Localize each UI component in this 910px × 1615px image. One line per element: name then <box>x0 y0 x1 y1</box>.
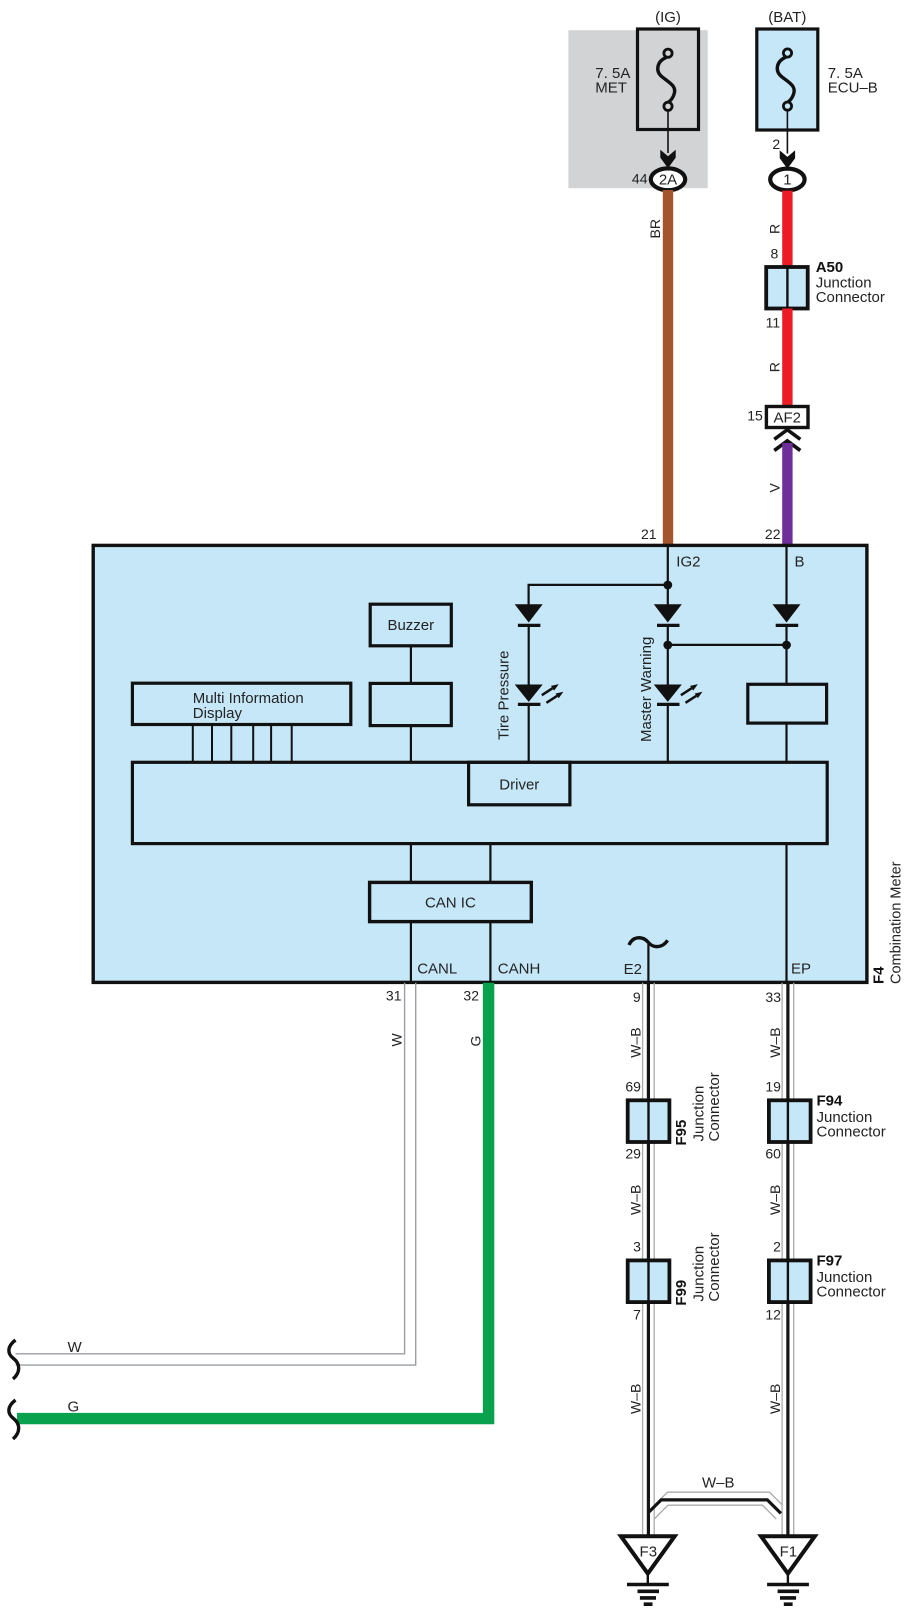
svg-text:R: R <box>766 224 782 234</box>
F95 name label (rotated) <box>673 1072 723 1145</box>
svg-text:Junction: Junction <box>691 1086 708 1142</box>
svg-text:Connector: Connector <box>817 1283 886 1300</box>
svg-text:W–B: W–B <box>627 1027 643 1057</box>
svg-text:F94: F94 <box>817 1092 844 1109</box>
ground F1 <box>761 1536 815 1604</box>
wire <box>667 704 669 762</box>
svg-text:12: 12 <box>765 1307 781 1323</box>
svg-text:V: V <box>766 483 782 493</box>
wire <box>785 625 787 684</box>
svg-text:(BAT): (BAT) <box>768 9 806 26</box>
svg-text:8: 8 <box>771 246 779 262</box>
svg-text:F97: F97 <box>817 1252 843 1269</box>
svg-text:F4: F4 <box>871 966 888 984</box>
svg-text:G: G <box>68 1399 80 1416</box>
svg-text:31: 31 <box>386 988 402 1004</box>
svg-text:W–B: W–B <box>627 1384 643 1414</box>
svg-text:21: 21 <box>641 526 657 542</box>
connector oval 1 <box>770 169 804 191</box>
fuse MET 7.5A box <box>638 29 699 130</box>
wire <box>410 726 412 763</box>
svg-text:1: 1 <box>783 172 791 189</box>
wire MW to B branch <box>668 644 787 646</box>
svg-text:11: 11 <box>766 314 781 330</box>
svg-text:F1: F1 <box>780 1543 798 1560</box>
wire <box>410 646 412 684</box>
svg-text:60: 60 <box>765 1146 781 1162</box>
svg-text:W–B: W–B <box>767 1384 783 1414</box>
svg-text:W: W <box>388 1033 404 1047</box>
svg-text:2: 2 <box>772 136 780 152</box>
shaded region (IG fuse area) <box>568 30 707 188</box>
svg-text:Connector: Connector <box>816 289 885 306</box>
svg-text:Buzzer: Buzzer <box>387 617 434 634</box>
main circuit block <box>132 762 827 843</box>
diode D2 <box>654 604 682 625</box>
wire <box>785 723 787 762</box>
buzzer driver block <box>370 683 451 725</box>
wire IG2 internal <box>667 547 669 605</box>
F97 name label <box>817 1252 886 1300</box>
svg-text:G: G <box>467 1036 483 1047</box>
wire R segment 2 (red) <box>782 309 792 408</box>
multi information display box <box>132 683 350 724</box>
wire <box>528 704 530 762</box>
svg-text:19: 19 <box>765 1079 781 1095</box>
svg-text:EP: EP <box>791 961 811 978</box>
wire G (green) <box>17 983 489 1419</box>
wire fuse MET to connector <box>667 110 669 153</box>
junction connector F99 box <box>628 1260 670 1302</box>
pin arrow into 2A <box>660 150 675 168</box>
wire CAN IC to CANH pin <box>489 922 491 981</box>
svg-text:R: R <box>766 362 782 372</box>
svg-text:CANH: CANH <box>498 961 541 978</box>
wire bus to CAN IC right <box>489 844 491 883</box>
buzzer box <box>370 604 451 646</box>
fuse ECU-B 7.5A box <box>757 29 818 130</box>
wire W (white, outline pair) <box>16 983 416 1365</box>
diode D1 <box>515 604 543 625</box>
svg-text:Connector: Connector <box>706 1232 723 1301</box>
svg-text:44: 44 <box>632 171 648 187</box>
svg-text:7: 7 <box>633 1307 641 1323</box>
svg-text:F3: F3 <box>640 1543 658 1560</box>
svg-text:Connector: Connector <box>817 1123 886 1140</box>
fuse MET symbol <box>658 49 675 110</box>
F94 name label <box>817 1092 886 1140</box>
junction connector F94 box <box>769 1100 811 1142</box>
svg-text:29: 29 <box>625 1146 641 1162</box>
driver box U1 <box>469 762 570 805</box>
svg-text:W–B: W–B <box>767 1185 783 1215</box>
wire bus to CAN IC left <box>410 844 412 883</box>
svg-text:CANL: CANL <box>417 961 457 978</box>
fuse ECU-B value label <box>828 65 878 96</box>
svg-text:ECU–B: ECU–B <box>828 80 878 97</box>
junction connector F95 box <box>628 1100 670 1142</box>
svg-text:IG2: IG2 <box>676 553 700 570</box>
node junction on IG2 <box>663 581 672 590</box>
wire W-B from EP (outline pair + black core) <box>782 983 794 1537</box>
svg-text:F95: F95 <box>673 1120 690 1146</box>
junction connector A50 box <box>766 267 808 309</box>
LED tire pressure <box>515 684 564 704</box>
svg-text:A50: A50 <box>816 259 844 276</box>
svg-text:33: 33 <box>765 989 781 1005</box>
svg-text:Display: Display <box>193 705 243 722</box>
connector AF2 box <box>766 407 808 428</box>
node junction B branch <box>782 641 791 650</box>
svg-text:W–B: W–B <box>767 1027 783 1057</box>
svg-text:AF2: AF2 <box>773 409 801 426</box>
svg-text:W–B: W–B <box>702 1475 735 1492</box>
continuation curl W <box>9 1340 19 1379</box>
svg-text:Tire Pressure: Tire Pressure <box>496 651 513 740</box>
combination meter box F4 <box>93 545 867 982</box>
wire to tire pressure branch <box>529 585 668 605</box>
svg-text:Junction: Junction <box>691 1246 708 1302</box>
svg-text:2: 2 <box>773 1239 781 1255</box>
svg-text:F99: F99 <box>673 1280 690 1306</box>
E2 internal stub with coil mark <box>629 938 668 981</box>
wire V (violet) <box>782 443 792 547</box>
svg-text:3: 3 <box>633 1239 641 1255</box>
diode D3 <box>773 604 801 625</box>
A50 name label <box>816 259 885 306</box>
wire W-B crosslink <box>648 1492 782 1519</box>
ground F3 <box>621 1536 675 1604</box>
MID bus wires <box>193 725 292 763</box>
wire R segment 1 (red) <box>782 191 792 268</box>
svg-text:Driver: Driver <box>499 777 539 794</box>
svg-text:32: 32 <box>463 988 479 1004</box>
svg-text:9: 9 <box>633 989 641 1005</box>
CAN IC box <box>370 882 532 921</box>
wire W-B from E2 (outline pair + black core) <box>643 983 655 1537</box>
F99 name label (rotated) <box>673 1232 723 1305</box>
wire bus to EP pin <box>785 844 787 981</box>
svg-text:69: 69 <box>625 1079 641 1095</box>
svg-text:B: B <box>795 553 805 570</box>
wire BR (brown) <box>663 190 673 545</box>
junction connector F97 box <box>769 1260 811 1302</box>
continuation curl G <box>9 1400 19 1439</box>
shield chevrons <box>774 430 800 451</box>
svg-text:E2: E2 <box>624 961 642 978</box>
connector oval 2A <box>651 168 685 190</box>
svg-text:W–B: W–B <box>627 1185 643 1215</box>
svg-text:MET: MET <box>595 80 627 97</box>
svg-text:Connector: Connector <box>706 1072 723 1141</box>
wire CAN IC to CANL pin <box>410 922 412 981</box>
pin arrow into 1 <box>780 150 795 168</box>
wire <box>528 625 530 684</box>
svg-text:22: 22 <box>765 526 781 542</box>
svg-text:Master Warning: Master Warning <box>638 637 655 742</box>
LED master warning <box>654 684 703 704</box>
svg-text:CAN IC: CAN IC <box>425 895 476 912</box>
node junction MW <box>663 641 672 650</box>
wire fuse ECU-B to connector <box>786 110 788 153</box>
fuse MET value label <box>595 65 630 97</box>
svg-text:(IG): (IG) <box>655 9 681 26</box>
svg-text:Combination Meter: Combination Meter <box>889 861 905 984</box>
svg-text:W: W <box>68 1339 83 1356</box>
wire B internal <box>785 547 787 605</box>
svg-text:15: 15 <box>747 407 763 423</box>
resistor block (B branch) <box>748 684 827 723</box>
svg-text:2A: 2A <box>659 171 677 188</box>
fuse ECU-B symbol <box>777 49 794 110</box>
svg-text:BR: BR <box>647 219 663 238</box>
wire <box>667 625 669 684</box>
